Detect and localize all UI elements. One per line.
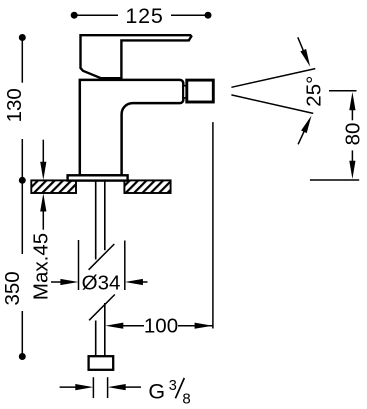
spout neck connector: [183, 86, 186, 98]
dimension 125 line right segment: [171, 14, 208, 16]
Max.45 upper arrow shaft: [42, 140, 44, 163]
dimension 125 line left segment: [74, 14, 118, 16]
Max.45 upper arrowhead (down): [40, 162, 46, 180]
faucet body: [80, 80, 184, 175]
diameter 34 right arrow: [125, 279, 143, 285]
svg-text:3: 3: [169, 378, 177, 394]
diameter 34 left extension line: [78, 240, 80, 290]
countertop right hatched section: [124, 180, 170, 193]
svg-text:G: G: [148, 380, 165, 404]
thread size label fraction slash: [175, 378, 184, 398]
dimension 100 left arrowhead: [105, 323, 123, 329]
svg-text:Ø34: Ø34: [82, 271, 121, 294]
aerator block: [187, 80, 214, 102]
spout outlet extension line: [212, 122, 214, 328]
dimension 125 right dot: [205, 12, 212, 19]
connection nut: [89, 356, 114, 370]
diameter 34 right extension line: [124, 241, 126, 291]
dimension 130/350 bottom dot: [19, 353, 26, 360]
pipe break slash upper: [89, 244, 115, 270]
svg-text:80: 80: [341, 123, 364, 146]
dimension 80 upper arrowhead (up): [349, 92, 355, 110]
G 3/8 right arrow: [108, 384, 126, 390]
countertop left hatched section: [31, 180, 76, 193]
dimension 125 left dot: [71, 12, 78, 19]
angle 25 lower leader arrowhead: [301, 116, 311, 134]
supply pipe lower segment left line: [95, 321, 97, 357]
angle 25 lower line: [231, 95, 313, 114]
angle 25 lower leader line: [298, 131, 304, 144]
dimension 130/350 top dot: [19, 34, 26, 41]
svg-text:350: 350: [1, 271, 24, 305]
dimension 100 right arrowhead: [195, 323, 213, 329]
supply pipe upper segment left line: [95, 181, 97, 260]
svg-text:8: 8: [182, 390, 190, 407]
dimension 130 line lower segment: [21, 139, 23, 178]
G 3/8 left arrow: [60, 386, 77, 388]
angle 25 upper leader line: [298, 37, 304, 51]
dimension 130 line upper segment: [21, 40, 23, 83]
dimension 350 line lower segment: [21, 311, 23, 355]
Max.45 lower arrowhead (up): [40, 193, 46, 211]
svg-text:25°: 25°: [302, 76, 325, 107]
G 3/8 left extension line: [92, 377, 94, 398]
faucet lever handle: [81, 35, 192, 78]
supply pipe upper segment right line: [104, 181, 106, 251]
dimension 80 top reference line: [329, 90, 357, 92]
pipe break slash lower: [89, 295, 115, 321]
dimension 100 line right segment: [178, 325, 213, 327]
svg-text:100: 100: [144, 314, 178, 337]
Max.45 lower arrow shaft: [42, 211, 44, 230]
dimension 80 lower arrowhead (down): [349, 161, 355, 179]
dimension 80 bottom reference line: [310, 179, 359, 181]
dimension 350 line upper segment: [21, 183, 23, 254]
svg-text:Max.45: Max.45: [29, 233, 52, 300]
angle 25 upper leader arrowhead: [300, 49, 310, 67]
supply pipe lower segment right line: [104, 303, 106, 357]
G 3/8 right extension line: [107, 377, 109, 398]
dimension 130/350 middle dot: [19, 177, 26, 184]
diameter 34 left arrow: [51, 281, 62, 283]
dimension 80 line upper segment: [351, 109, 353, 120]
svg-text:130: 130: [3, 88, 26, 122]
base escutcheon flange: [68, 175, 128, 180]
angle 25 upper line: [231, 69, 315, 88]
svg-text:125: 125: [125, 4, 163, 28]
dimension 100 line left segment: [122, 325, 144, 327]
dimension 80 line lower segment: [351, 150, 353, 162]
